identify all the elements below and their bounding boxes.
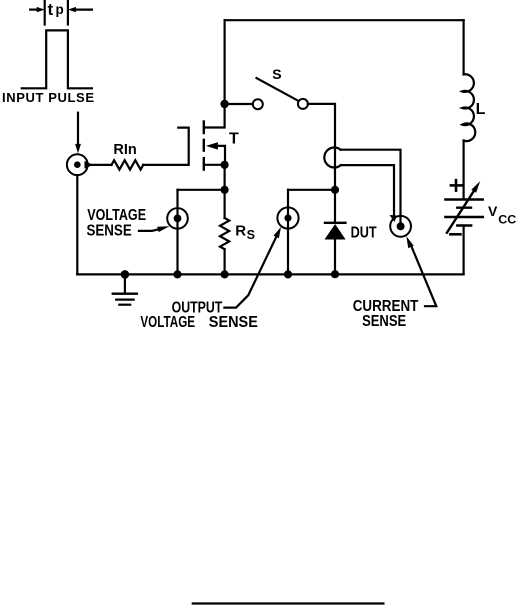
- svg-text:T: T: [229, 131, 239, 148]
- svg-text:SENSE: SENSE: [362, 313, 406, 330]
- svg-text:SENSE: SENSE: [87, 223, 133, 240]
- svg-text:SENSE: SENSE: [209, 314, 258, 332]
- svg-text:p: p: [56, 2, 64, 17]
- svg-text:L: L: [476, 101, 486, 118]
- svg-text:INPUT PULSE: INPUT PULSE: [2, 90, 94, 105]
- svg-text:CC: CC: [498, 213, 516, 227]
- svg-text:R: R: [235, 223, 246, 240]
- svg-text:RIn: RIn: [113, 142, 136, 158]
- svg-text:t: t: [48, 0, 54, 19]
- svg-text:S: S: [272, 66, 281, 82]
- svg-text:V: V: [488, 203, 498, 219]
- svg-text:VOLTAGE: VOLTAGE: [87, 206, 146, 224]
- svg-text:DUT: DUT: [351, 224, 377, 242]
- svg-text:S: S: [247, 228, 255, 242]
- svg-text:VOLTAGE: VOLTAGE: [140, 314, 195, 331]
